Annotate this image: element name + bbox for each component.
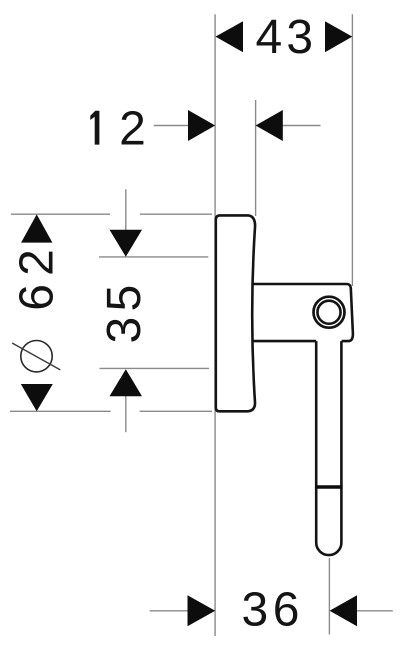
svg-text:36: 36 — [242, 583, 304, 636]
svg-text:2: 2 — [119, 103, 146, 156]
svg-text:43: 43 — [256, 11, 318, 64]
svg-text:35: 35 — [98, 279, 151, 343]
svg-text:62: 62 — [11, 241, 64, 311]
